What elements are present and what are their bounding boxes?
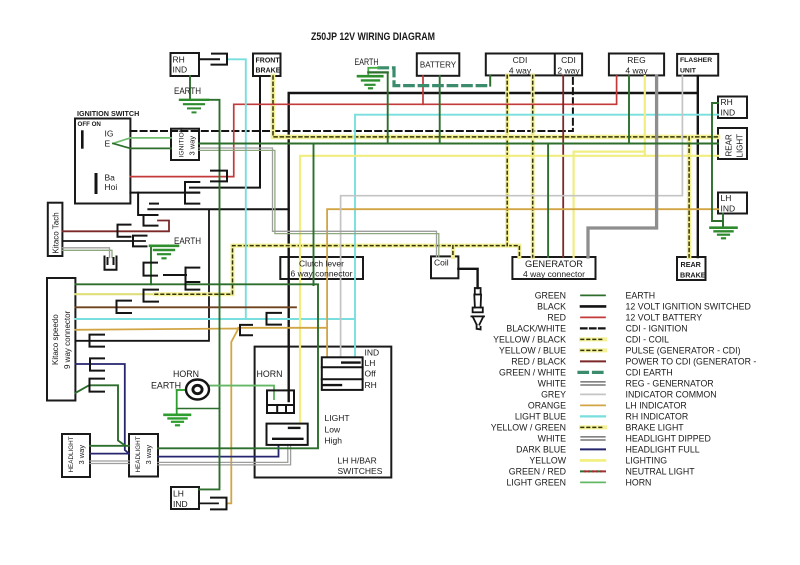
wire red-black maroon CDI to generator [562, 75, 564, 257]
bullet connector on tach black [133, 236, 147, 247]
wire black speedo lead [75, 210, 209, 341]
svg-text:9 way connector: 9 way connector [63, 310, 72, 369]
svg-text:6 way connector: 6 way connector [291, 269, 353, 279]
generator 4 way connector box [512, 257, 595, 279]
svg-text:GREY: GREY [541, 389, 566, 399]
svg-text:BRAKE LIGHT: BRAKE LIGHT [626, 422, 685, 432]
kitaco tach box [48, 203, 63, 256]
wire yellow-green dashed rear brake drop [687, 137, 692, 257]
svg-text:RH: RH [173, 55, 185, 65]
svg-text:IG: IG [105, 128, 114, 138]
legend sample black [581, 305, 605, 308]
svg-text:EARTH: EARTH [151, 381, 181, 391]
svg-text:HEADLIGHT: HEADLIGHT [135, 436, 142, 472]
svg-text:DARK BLUE: DARK BLUE [516, 444, 566, 454]
svg-text:PULSE (GENERATOR - CDI): PULSE (GENERATOR - CDI) [626, 345, 741, 355]
wire brown speedo lead [75, 306, 296, 308]
svg-text:3 way: 3 way [144, 445, 153, 465]
wire yellow-green dashed brake light bus [273, 76, 718, 137]
rear brake box [677, 257, 706, 280]
wire red 12V battery bus [130, 76, 616, 177]
wire dark green generator drop [547, 144, 549, 258]
ground symbol centre near battery [358, 68, 388, 89]
svg-text:IND: IND [173, 499, 188, 509]
wire dark green earth horizontal near tach [75, 283, 318, 285]
svg-text:BLACK: BLACK [537, 301, 566, 311]
svg-text:12 VOLT BATTERY: 12 VOLT BATTERY [626, 312, 703, 322]
RH indicator box top-left [171, 53, 200, 76]
svg-text:BLACK/WHITE: BLACK/WHITE [506, 323, 566, 333]
wire dark green earth bus [199, 143, 718, 145]
svg-text:BRAKE: BRAKE [256, 68, 281, 75]
wire black ignition Hoi [130, 192, 199, 194]
wire orange speedo lead [75, 329, 238, 504]
svg-text:EARTH: EARTH [626, 290, 656, 300]
svg-text:RED / BLACK: RED / BLACK [511, 356, 566, 366]
svg-text:YELLOW / BLUE: YELLOW / BLUE [499, 345, 566, 355]
svg-text:IND: IND [173, 65, 188, 75]
svg-text:YELLOW / GREEN: YELLOW / GREEN [491, 422, 566, 432]
svg-text:RH: RH [721, 97, 733, 107]
coil box [431, 256, 458, 278]
wire dark green speedo headlight lead [75, 385, 125, 446]
bullet connector on speedo green [90, 379, 105, 392]
svg-text:Coil: Coil [434, 257, 449, 267]
legend sample light green [581, 481, 605, 483]
svg-text:HEADLIGHT: HEADLIGHT [68, 436, 75, 472]
wire cyan RH indicator network [227, 59, 246, 319]
legend sample yellow [581, 459, 605, 462]
svg-text:LH: LH [173, 489, 184, 499]
legend [491, 290, 757, 487]
bullet connector on RH ind wire [212, 54, 228, 65]
wire dark green ignition E lower [113, 143, 171, 148]
wire dark green right RH ind to LH ind earth [712, 103, 723, 227]
ground symbol near tach [150, 246, 178, 258]
svg-text:EARTH: EARTH [174, 236, 201, 246]
svg-text:GREEN: GREEN [535, 290, 566, 300]
svg-text:LIGHT GREEN: LIGHT GREEN [507, 477, 566, 487]
wire grey-pair ignition kill to coil [199, 148, 437, 257]
bullet connector on tach red [118, 225, 131, 237]
svg-text:IGNITION: IGNITION [179, 127, 186, 157]
svg-text:GREEN / RED: GREEN / RED [509, 466, 566, 476]
wire yellow-black dashed speedo to coil and generator [75, 293, 158, 295]
wire yellow lighting bus [300, 156, 718, 424]
svg-text:Kitaco speedo: Kitaco speedo [51, 314, 60, 365]
indicator switch box [322, 357, 363, 390]
svg-text:E: E [105, 138, 111, 148]
svg-text:Z50JP 12V WIRING DIAGRAM: Z50JP 12V WIRING DIAGRAM [311, 31, 435, 43]
wire white thick reg to generator [588, 76, 657, 257]
svg-text:HORN: HORN [626, 477, 652, 487]
horn symbol [186, 380, 209, 400]
legend sample green [581, 294, 605, 296]
wire grey indicator common flasher to switch pod [341, 76, 683, 357]
svg-text:HORN: HORN [257, 369, 283, 379]
svg-text:UNIT: UNIT [680, 68, 697, 75]
bullet connector on speedo black [90, 335, 105, 347]
wire light green horn earth link [177, 389, 185, 391]
wire black cluster to main vertical [148, 208, 288, 210]
svg-text:YELLOW: YELLOW [529, 455, 566, 465]
svg-text:EARTH: EARTH [355, 57, 379, 67]
wire black LH ind bottom stub [199, 502, 218, 504]
ground symbol bottom right under LH ind [711, 214, 737, 239]
svg-text:LH: LH [721, 193, 732, 203]
wire dark green RH ind earth drop to LH ind bottom [199, 100, 220, 490]
svg-text:LIGHT: LIGHT [736, 134, 745, 158]
wire black tach lead [62, 240, 145, 242]
svg-text:OFF ON: OFF ON [78, 121, 102, 128]
svg-text:RH: RH [365, 380, 377, 390]
svg-text:NEUTRAL LIGHT: NEUTRAL LIGHT [626, 466, 696, 476]
ground symbol horn earth [165, 415, 191, 426]
svg-text:FRONT: FRONT [256, 57, 281, 64]
svg-text:FLASHER: FLASHER [680, 57, 712, 64]
wire black coil to spark plug [458, 269, 477, 288]
svg-text:Ba: Ba [105, 172, 116, 182]
headlight 3 way box 2 [129, 434, 158, 477]
spark plug [471, 288, 484, 329]
headlight 3 way box 1 [62, 434, 90, 477]
legend sample yellow/green [581, 425, 605, 429]
svg-text:LIGHT BLUE: LIGHT BLUE [515, 411, 566, 421]
svg-text:CDI EARTH: CDI EARTH [626, 367, 673, 377]
svg-text:LIGHTING: LIGHTING [626, 455, 668, 465]
legend sample grey [581, 393, 605, 395]
wire yellow regulator to generator [574, 152, 645, 257]
svg-text:High: High [325, 436, 343, 446]
svg-text:REG - GENERNATOR: REG - GENERNATOR [626, 378, 714, 388]
wire orange switch link [238, 327, 327, 329]
wire green-white dashed CDI earth [379, 68, 490, 86]
svg-text:3 way: 3 way [188, 136, 197, 156]
wire orange LH indicator bus [327, 209, 718, 357]
svg-text:Kitaco Tach: Kitaco Tach [52, 212, 61, 253]
clutch lever 6 way connector box [280, 257, 363, 279]
wire dark green centre earth drop [387, 72, 389, 143]
wire black dashed CDI ignition bus [130, 75, 573, 131]
svg-text:3 way: 3 way [77, 445, 86, 465]
svg-text:HEADLIGHT DIPPED: HEADLIGHT DIPPED [626, 433, 711, 443]
svg-text:IND: IND [721, 203, 736, 213]
svg-text:2 way: 2 way [557, 65, 580, 75]
svg-text:POWER TO CDI (GENERATOR -: POWER TO CDI (GENERATOR - [626, 356, 757, 366]
battery box [417, 53, 460, 76]
bullet connector on speedo brown [117, 301, 132, 313]
connector cluster on earth green [144, 263, 200, 290]
wire grey-pair headlight dipped [90, 460, 129, 462]
legend sample black/white dashed [581, 327, 605, 329]
svg-text:GENERATOR: GENERATOR [525, 259, 583, 269]
svg-text:LIGHT: LIGHT [325, 413, 350, 423]
wire red battery drop [422, 76, 424, 104]
ignition switch box [75, 119, 130, 204]
wire yellow-black dashed CDI coil drop [505, 75, 509, 245]
svg-text:IND: IND [365, 348, 380, 358]
svg-text:REG: REG [627, 55, 645, 65]
legend sample white double 2 [581, 436, 605, 438]
legend sample yellow/black [581, 337, 605, 341]
svg-text:WHITE: WHITE [538, 433, 566, 443]
LH indicator box right [718, 193, 747, 214]
dip switch box [267, 424, 308, 445]
legend sample red [581, 316, 605, 318]
svg-text:12 VOLT IGNITION SWITCHED: 12 VOLT IGNITION SWITCHED [626, 301, 751, 311]
legend sample orange [581, 404, 605, 406]
svg-text:Low: Low [325, 425, 341, 435]
wire dark green clutch lighting [313, 144, 315, 286]
bullet connector on LH ind orange [211, 498, 227, 510]
legend sample red/black [581, 360, 605, 362]
horn switch box [267, 390, 294, 413]
svg-text:IND: IND [721, 107, 736, 117]
svg-text:4 way connector: 4 way connector [523, 269, 585, 279]
svg-text:4 way: 4 way [625, 65, 648, 75]
legend sample green/red [581, 470, 605, 472]
front brake box [253, 54, 281, 77]
wire grey-pair tach [62, 248, 109, 258]
svg-text:4 way: 4 way [509, 65, 532, 75]
svg-text:CDI - IGNITION: CDI - IGNITION [626, 323, 688, 333]
svg-text:Hoi: Hoi [105, 182, 118, 192]
wire dark green regulator drop [628, 76, 630, 144]
wire dark green horn earth branch [177, 408, 220, 410]
svg-text:EARTH: EARTH [174, 86, 201, 96]
svg-text:LH H/BAR: LH H/BAR [338, 456, 377, 466]
wire black front brake drop [190, 76, 260, 188]
svg-text:WHITE: WHITE [538, 378, 566, 388]
wire black RH ind to bullet [199, 58, 219, 60]
wire black ignition cluster vertical [138, 193, 157, 215]
svg-text:IGNITION SWITCH: IGNITION SWITCH [77, 109, 139, 118]
rear light box [718, 128, 747, 159]
wire dark green RH ind stem [189, 76, 191, 98]
wire dark green headlight link [90, 445, 129, 447]
connector on tach grey pair [105, 257, 117, 270]
svg-text:HEADLIGHT FULL: HEADLIGHT FULL [626, 444, 700, 454]
svg-text:LH: LH [365, 358, 376, 368]
CDI box [486, 54, 582, 76]
legend sample light blue [581, 415, 605, 417]
svg-text:BATTERY: BATTERY [420, 61, 457, 70]
RH indicator box right [718, 97, 747, 119]
bullet connector tach red to black [144, 215, 158, 226]
svg-text:Clutch lever: Clutch lever [299, 258, 344, 268]
bullet connector on speedo cyan [267, 313, 282, 325]
svg-text:INDICATOR COMMON: INDICATOR COMMON [626, 389, 717, 399]
wire yellow-blue dashed pulse CDI to generator [531, 75, 535, 257]
svg-text:CDI: CDI [513, 55, 528, 65]
ignition switch internals [82, 132, 96, 193]
wire yellow regulator drop [644, 76, 646, 156]
wire light green horn feed [210, 386, 274, 399]
svg-text:SWITCHES: SWITCHES [338, 466, 383, 476]
svg-text:HORN: HORN [173, 369, 199, 379]
legend sample green/white [579, 371, 607, 374]
svg-text:Off: Off [365, 369, 377, 379]
svg-text:RED: RED [547, 312, 566, 322]
wire red-black maroon tach lead [62, 221, 169, 232]
wire black 12V switched bus [289, 93, 698, 401]
legend sample yellow/blue [581, 348, 605, 352]
svg-text:LH INDICATOR: LH INDICATOR [626, 400, 687, 410]
ignition 3 way connector box [171, 129, 199, 160]
wire dark green battery earth [439, 76, 441, 144]
svg-text:ORANGE: ORANGE [528, 400, 566, 410]
wire dark blue headlight full [75, 364, 129, 454]
LH handlebar switches box [255, 347, 392, 478]
svg-text:REAR: REAR [681, 260, 702, 269]
connector cluster ignition black [150, 182, 199, 204]
wire black flasher to rear brake [697, 76, 699, 257]
wire dark green tach earth stem [150, 246, 152, 284]
LH indicator box bottom [171, 487, 199, 509]
legend sample white double [581, 381, 605, 383]
bullet connector on orange link [240, 325, 252, 335]
bullet connector on speedo dashed [144, 290, 159, 302]
svg-text:RH INDICATOR: RH INDICATOR [626, 411, 689, 421]
svg-text:CDI - COIL: CDI - COIL [626, 334, 670, 344]
svg-text:YELLOW / BLACK: YELLOW / BLACK [493, 334, 566, 344]
flasher unit box [677, 54, 718, 76]
wire yellow-black dashed coil drop [451, 246, 455, 257]
svg-text:BRAKE: BRAKE [680, 270, 706, 279]
svg-text:GREEN / WHITE: GREEN / WHITE [499, 367, 566, 377]
svg-text:REAR: REAR [725, 134, 734, 156]
regulator box [609, 54, 664, 76]
bullet connector on red Ba wire [211, 171, 227, 182]
legend sample dark blue [581, 448, 605, 450]
kitaco speedo 9 way connector box [47, 278, 75, 401]
svg-text:CDI: CDI [561, 55, 576, 65]
wire light green ignition E upper [113, 138, 171, 144]
bullet connector on speedo dark blue [90, 358, 104, 370]
ground symbol top-left under RH ind [180, 100, 208, 113]
